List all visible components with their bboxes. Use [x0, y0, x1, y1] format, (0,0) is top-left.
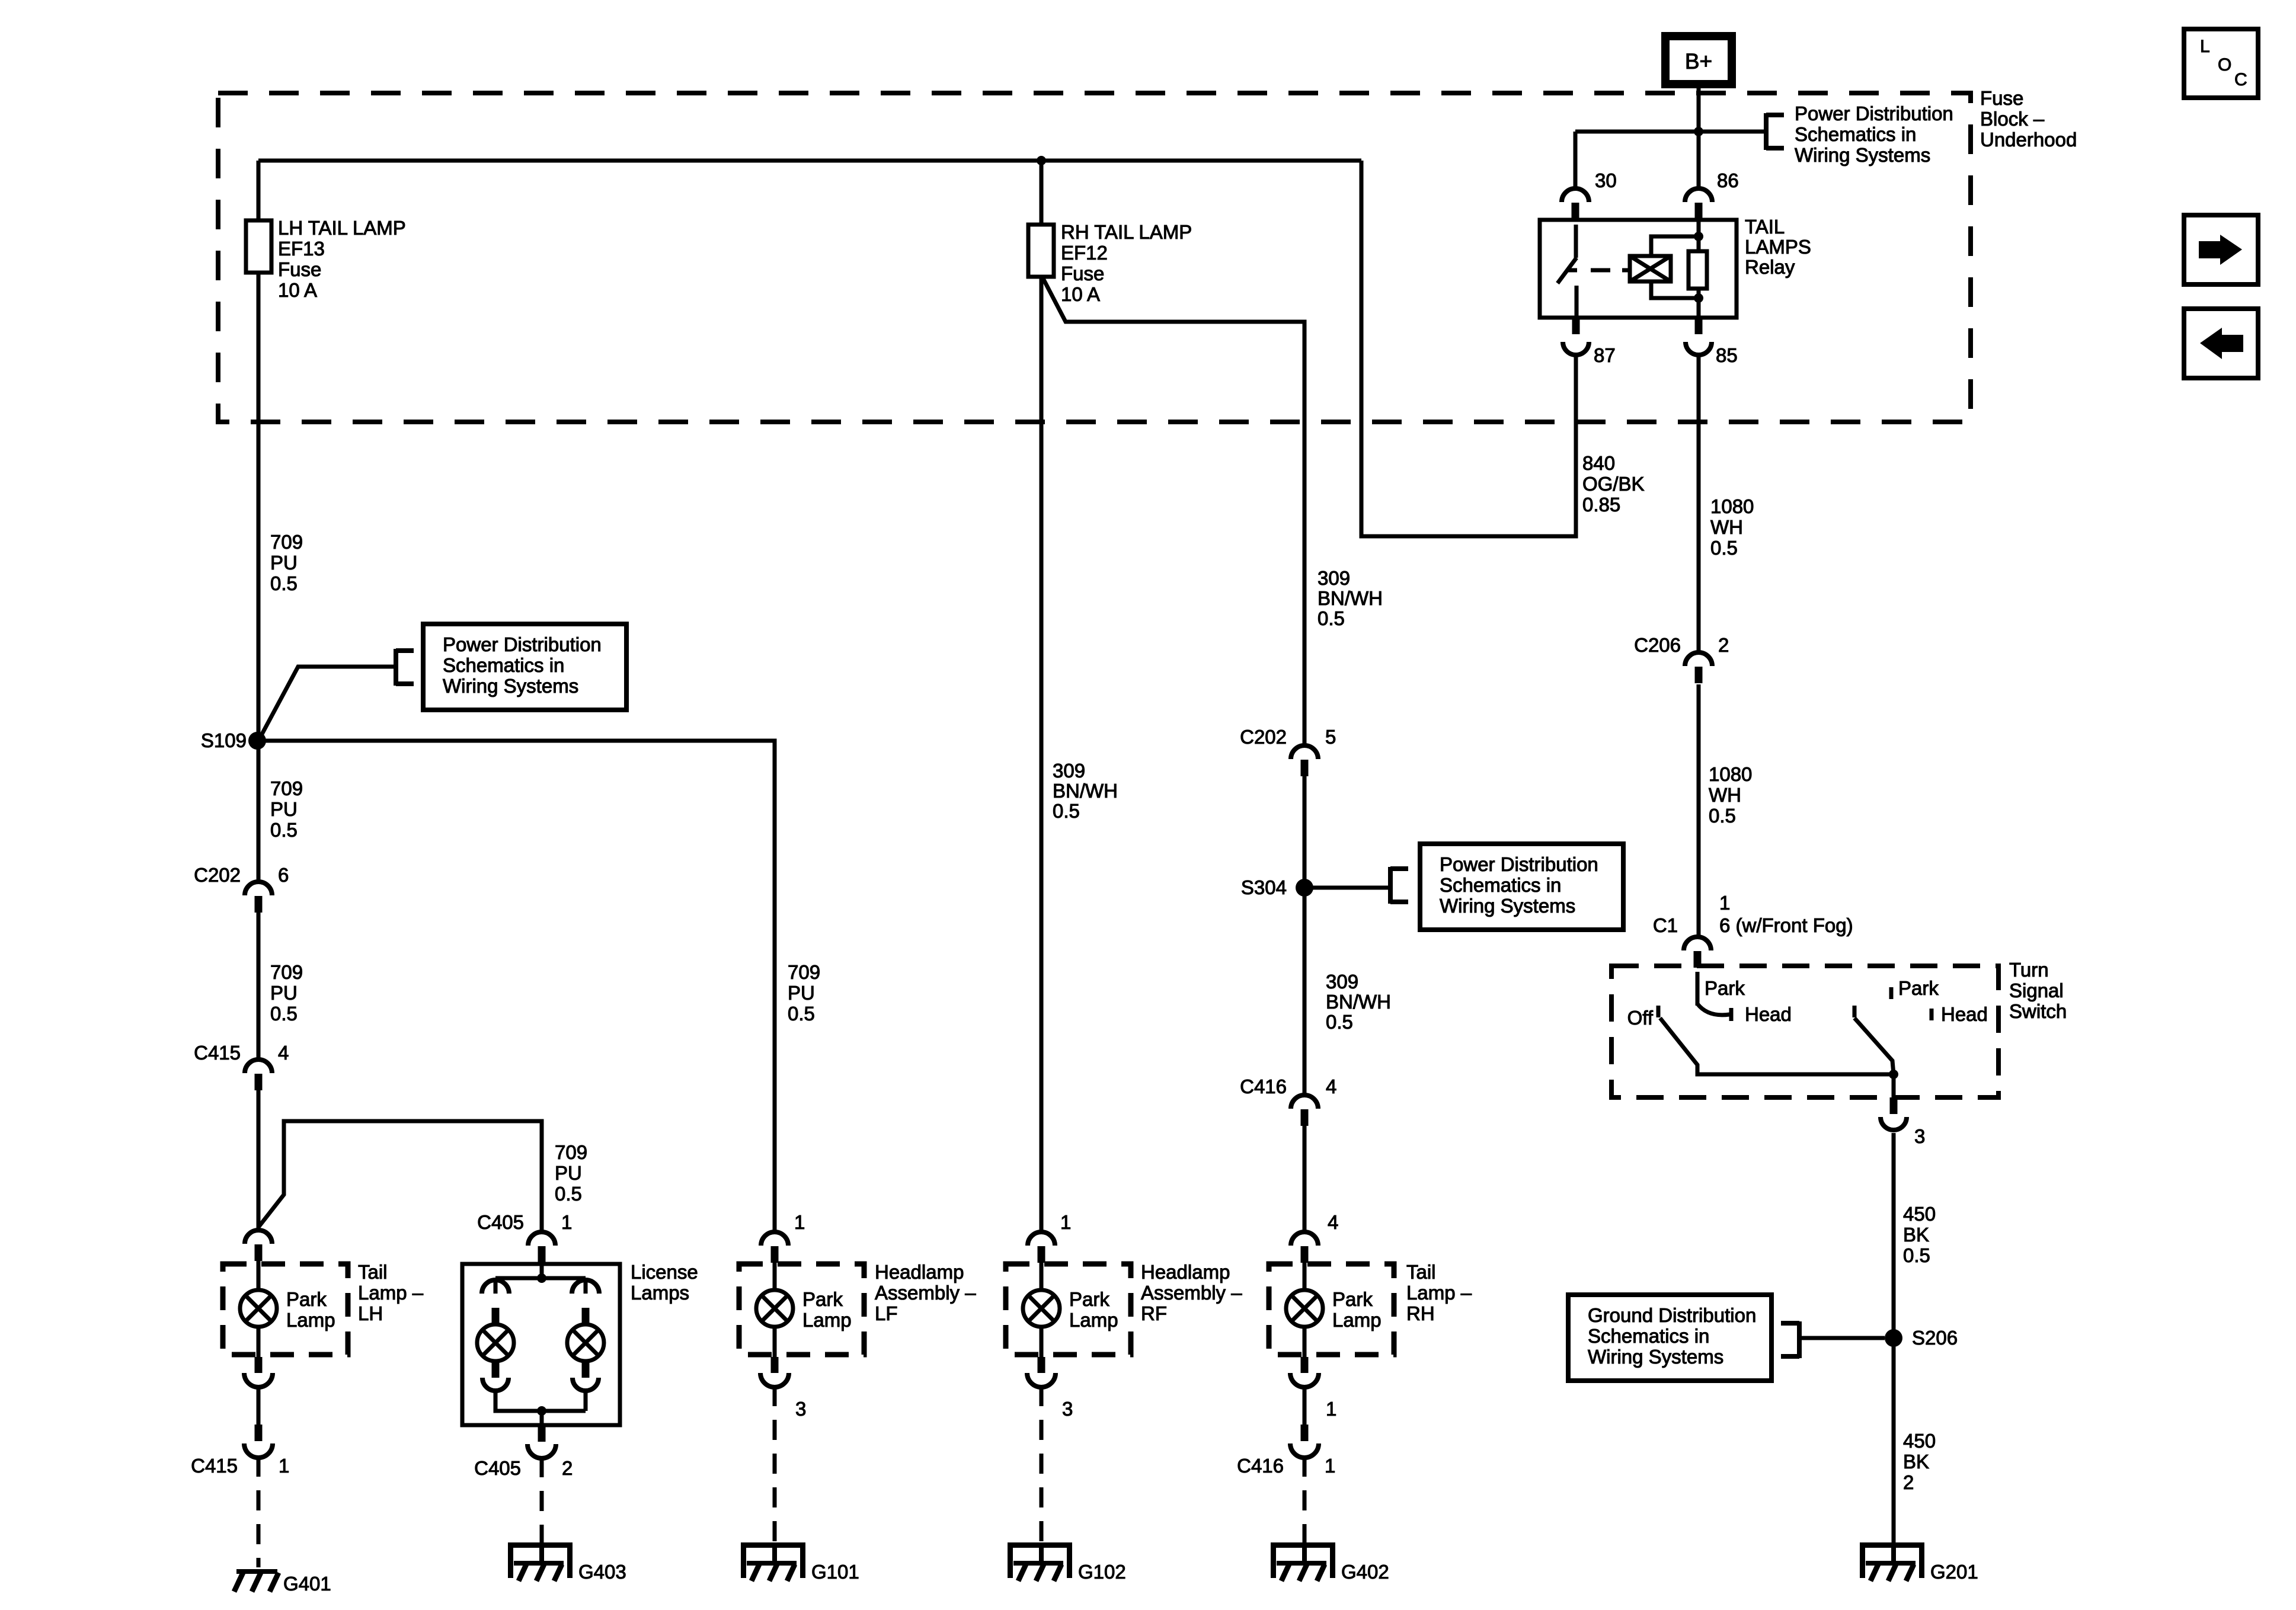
wire dashed C416-1 to G402	[1303, 1457, 1307, 1542]
svg-text:30: 30	[1595, 169, 1617, 191]
wire relay pin 86 internal	[1697, 220, 1701, 298]
svg-text:Off: Off	[1627, 1007, 1654, 1029]
svg-text:Lamp: Lamp	[1069, 1309, 1118, 1331]
svg-text:Power Distribution: Power Distribution	[1795, 103, 1953, 124]
svg-text:S109: S109	[201, 729, 247, 751]
svg-text:Lamp: Lamp	[802, 1309, 852, 1331]
svg-text:Wiring Systems: Wiring Systems	[1588, 1346, 1723, 1368]
svg-text:Lamp: Lamp	[286, 1309, 335, 1331]
svg-text:Head: Head	[1745, 1003, 1792, 1025]
tail lamp LH dashed outline	[223, 1264, 348, 1355]
svg-text:4: 4	[1326, 1076, 1336, 1097]
wire into RF park lamp bulb	[1040, 1261, 1044, 1290]
svg-text:Park: Park	[286, 1288, 327, 1310]
node license bottom junction	[537, 1406, 546, 1416]
svg-text:Wiring Systems: Wiring Systems	[1795, 144, 1930, 166]
wire license top split	[495, 1276, 586, 1281]
svg-text:WH: WH	[1709, 784, 1741, 806]
svg-text:RF: RF	[1141, 1302, 1167, 1324]
svg-text:Power Distribution: Power Distribution	[1440, 853, 1598, 875]
contact tick Off	[1657, 1006, 1661, 1017]
switch park-head selector curve	[1697, 1004, 1729, 1015]
contact tick Head (right)	[1930, 1009, 1934, 1020]
relay coil box	[1630, 256, 1671, 281]
wire 840 OG/BK relay 87 to fuses bus	[1361, 161, 1576, 536]
connector C1 pin 1	[1684, 937, 1711, 968]
svg-text:709: 709	[788, 961, 820, 983]
svg-text:EF13: EF13	[278, 238, 325, 260]
svg-text:Park: Park	[1069, 1288, 1109, 1310]
svg-text:85: 85	[1716, 344, 1738, 366]
svg-text:C1: C1	[1653, 914, 1678, 936]
node S304	[1296, 879, 1313, 897]
relay pin 87 connector	[1563, 318, 1589, 355]
connector C415 pin 4	[245, 1060, 272, 1090]
wire C405 into license box	[540, 1263, 544, 1278]
wire S109 to LF park lamp column	[258, 741, 775, 1232]
svg-text:WH: WH	[1710, 516, 1743, 538]
svg-text:Lamp: Lamp	[1332, 1309, 1382, 1331]
svg-text:Lamp –: Lamp –	[1406, 1282, 1472, 1304]
node junction on B+ wire	[1694, 127, 1703, 136]
svg-text:PU: PU	[270, 798, 298, 820]
node switch output junction	[1889, 1070, 1898, 1079]
switch blade right	[1854, 1018, 1894, 1074]
svg-text:0.5: 0.5	[1710, 537, 1738, 559]
svg-text:450: 450	[1903, 1203, 1936, 1225]
bracket to power distribution note (S304)	[1390, 867, 1408, 904]
svg-text:1080: 1080	[1709, 763, 1752, 785]
svg-text:Schematics in: Schematics in	[1588, 1325, 1709, 1347]
connector LH tail lamp lower pin	[244, 1357, 273, 1387]
wire branch to license lamps	[258, 1121, 542, 1232]
connector license left bulb lower	[482, 1361, 509, 1391]
relay pin 85 connector	[1686, 318, 1712, 355]
svg-text:1: 1	[1719, 892, 1730, 914]
svg-text:1: 1	[279, 1455, 289, 1477]
svg-text:709: 709	[270, 961, 303, 983]
svg-text:G201: G201	[1930, 1561, 1978, 1583]
svg-text:Fuse: Fuse	[278, 258, 321, 280]
wire C416-4 to RH tail lamp	[1303, 1126, 1307, 1232]
relay actuator dashed link	[1591, 268, 1630, 273]
wire 709 PU C202 to C415	[257, 913, 261, 1060]
svg-text:1: 1	[1325, 1455, 1335, 1477]
svg-text:87: 87	[1594, 344, 1616, 366]
svg-text:C202: C202	[194, 864, 241, 886]
svg-text:C405: C405	[474, 1457, 521, 1479]
wire license bottom	[540, 1411, 544, 1425]
svg-text:309: 309	[1326, 971, 1358, 993]
svg-text:O: O	[2218, 55, 2231, 75]
note box Power Distribution (S109)	[423, 624, 626, 710]
LOC reference box	[2184, 29, 2258, 98]
svg-text:PU: PU	[788, 982, 815, 1004]
wire relay internal to pin 85	[1697, 289, 1701, 318]
wire 1080 WH C206 to C1	[1697, 684, 1701, 937]
svg-text:1080: 1080	[1710, 495, 1754, 517]
svg-text:0.5: 0.5	[270, 1003, 298, 1025]
connector headlamp RF pin 1	[1028, 1232, 1055, 1263]
svg-text:0.5: 0.5	[1318, 607, 1345, 629]
svg-text:Turn: Turn	[2009, 959, 2049, 981]
svg-text:Park: Park	[1332, 1288, 1373, 1310]
svg-text:C415: C415	[194, 1042, 241, 1064]
relay TAIL LAMPS box	[1540, 220, 1737, 318]
svg-text:709: 709	[270, 777, 303, 799]
wire 1080 WH relay 85 to C206	[1697, 353, 1701, 652]
lamp Park Lamp RF bulb	[1023, 1290, 1060, 1327]
fuse EF12 RH TAIL LAMP	[1028, 225, 1054, 277]
headlamp assembly RF dashed outline	[1006, 1264, 1131, 1355]
wire into RH park lamp bulb	[1303, 1261, 1307, 1290]
wire dashed RF to G102	[1040, 1386, 1044, 1542]
wire RH lamp to C416 pin 1	[1303, 1386, 1307, 1425]
svg-text:S206: S206	[1912, 1327, 1958, 1349]
svg-text:4: 4	[278, 1042, 289, 1064]
wire S304 to power distribution note bracket	[1304, 886, 1390, 890]
svg-text:86: 86	[1717, 169, 1739, 191]
svg-text:0.5: 0.5	[1709, 805, 1736, 827]
svg-text:G102: G102	[1078, 1561, 1126, 1583]
svg-text:Schematics in: Schematics in	[443, 654, 564, 676]
lamp license right bulb	[567, 1324, 604, 1361]
svg-text:309: 309	[1053, 760, 1085, 782]
svg-text:C: C	[2234, 70, 2247, 89]
wire 450 BK pin 3 to S206	[1892, 1133, 1896, 1338]
relay switch upper stub	[1574, 225, 1578, 258]
wire license left leg lower	[495, 1391, 586, 1411]
svg-text:5: 5	[1325, 726, 1336, 748]
wire RF bulb to lower pin	[1040, 1327, 1044, 1357]
ground G402	[1271, 1542, 1335, 1581]
node coil top junction	[1694, 232, 1703, 241]
svg-text:B+: B+	[1685, 49, 1712, 73]
svg-text:PU: PU	[270, 552, 298, 574]
svg-text:BN/WH: BN/WH	[1318, 587, 1383, 609]
wire into LH park lamp bulb	[257, 1261, 261, 1290]
ground G102	[1008, 1542, 1072, 1581]
turn signal switch dashed outline	[1611, 966, 1998, 1097]
svg-text:Headlamp: Headlamp	[875, 1261, 964, 1283]
tail lamp RH dashed outline	[1269, 1264, 1394, 1355]
svg-text:0.5: 0.5	[270, 819, 298, 841]
svg-text:C415: C415	[191, 1455, 238, 1477]
svg-text:LH: LH	[358, 1302, 383, 1324]
connector headlamp LF pin 3	[760, 1357, 789, 1387]
svg-text:Switch: Switch	[2009, 1000, 2067, 1022]
svg-text:Headlamp: Headlamp	[1141, 1261, 1230, 1283]
node junction at RH fuse tap	[1037, 156, 1046, 165]
svg-text:1: 1	[561, 1211, 572, 1233]
svg-text:Assembly –: Assembly –	[875, 1282, 976, 1304]
svg-text:1: 1	[794, 1211, 805, 1233]
svg-text:Block –: Block –	[1980, 108, 2045, 130]
svg-text:C202: C202	[1240, 726, 1287, 748]
wire 309 BN/WH RH fuse to RF lamp	[1040, 277, 1044, 1232]
svg-text:6 (w/Front Fog): 6 (w/Front Fog)	[1719, 914, 1853, 936]
bracket to power distribution note	[1766, 113, 1784, 150]
wire license right leg lower	[584, 1391, 588, 1411]
relay pin 86 connector	[1685, 188, 1712, 219]
lamp license left bulb	[477, 1324, 514, 1361]
wire 709 PU LH fuse to S109	[257, 273, 261, 741]
wire C415 to LH park lamp	[257, 1090, 261, 1230]
wire into LF park lamp bulb	[773, 1261, 777, 1290]
connector C415 pin 1	[244, 1425, 273, 1458]
connector tail lamp RH lower pin	[1290, 1357, 1319, 1387]
svg-text:Tail: Tail	[358, 1261, 388, 1283]
svg-text:3: 3	[1914, 1125, 1925, 1147]
connector C202 pin 5	[1291, 745, 1318, 776]
svg-text:Fuse: Fuse	[1061, 263, 1104, 284]
svg-text:Park: Park	[1705, 977, 1745, 999]
svg-text:1: 1	[1326, 1398, 1336, 1420]
wire dashed LF to G101	[773, 1386, 777, 1542]
svg-text:RH: RH	[1406, 1302, 1435, 1324]
svg-text:OG/BK: OG/BK	[1582, 473, 1645, 495]
svg-text:LAMPS: LAMPS	[1745, 236, 1811, 258]
connector C206 pin 2	[1685, 652, 1712, 683]
svg-text:3: 3	[1062, 1398, 1073, 1420]
wire RH bulb to lower pin	[1303, 1327, 1307, 1357]
svg-text:Schematics in: Schematics in	[1795, 123, 1916, 145]
connector C202 pin 6	[245, 882, 272, 913]
svg-text:2: 2	[1903, 1471, 1914, 1493]
contact tick pivot right	[1853, 1006, 1857, 1017]
wire 309 BN/WH S304 to C416	[1303, 888, 1307, 1095]
relay switch contact tick	[1567, 268, 1577, 273]
svg-text:Schematics in: Schematics in	[1440, 874, 1561, 896]
bracket from ground distribution note	[1781, 1321, 1799, 1358]
node S109	[248, 732, 266, 750]
svg-text:6: 6	[278, 864, 289, 886]
bracket to power distribution note (S109)	[396, 649, 414, 686]
wire C202-5 to S304	[1303, 776, 1307, 888]
svg-text:Head: Head	[1941, 1003, 1988, 1025]
svg-text:BK: BK	[1903, 1224, 1929, 1246]
arrow box left	[2184, 309, 2258, 378]
wire license left leg upper	[494, 1278, 498, 1294]
wire LF bulb to lower pin	[773, 1327, 777, 1357]
connector C405 pin 2	[527, 1425, 556, 1458]
svg-text:2: 2	[1718, 634, 1729, 656]
lamp Park Lamp RH bulb	[1286, 1290, 1323, 1327]
svg-text:S304: S304	[1241, 876, 1287, 898]
svg-text:0.85: 0.85	[1582, 494, 1620, 516]
wire dashed C405-2 to G403	[540, 1457, 544, 1542]
ground G101	[741, 1542, 805, 1581]
wire 709 PU S109 to C202	[257, 741, 261, 882]
connector switch pin 3	[1881, 1097, 1907, 1130]
svg-text:PU: PU	[270, 982, 298, 1004]
headlamp assembly LF dashed outline	[739, 1264, 864, 1355]
wire B+ to relay pin 86	[1697, 85, 1701, 190]
wire junction to pin 30 riser and note bracket	[1575, 130, 1766, 134]
svg-text:G403: G403	[578, 1561, 626, 1583]
node S206	[1885, 1329, 1902, 1347]
svg-text:RH TAIL LAMP: RH TAIL LAMP	[1061, 221, 1192, 243]
svg-text:840: 840	[1582, 452, 1615, 474]
connector C416 pin 1	[1290, 1425, 1319, 1458]
svg-text:Park: Park	[802, 1288, 843, 1310]
svg-text:10 A: 10 A	[1061, 283, 1100, 305]
svg-text:TAIL: TAIL	[1745, 216, 1785, 238]
svg-text:C416: C416	[1237, 1455, 1284, 1477]
svg-text:BN/WH: BN/WH	[1053, 780, 1118, 802]
svg-text:Tail: Tail	[1406, 1261, 1436, 1283]
arrow box right	[2184, 215, 2258, 284]
svg-text:309: 309	[1318, 567, 1350, 589]
svg-text:C416: C416	[1240, 1076, 1287, 1097]
svg-text:0.5: 0.5	[1326, 1011, 1353, 1033]
fuse EF13 LH TAIL LAMP	[246, 220, 271, 273]
node license top junction	[537, 1273, 546, 1283]
svg-text:0.5: 0.5	[270, 572, 298, 594]
connector license left bulb upper	[482, 1280, 509, 1324]
svg-text:G402: G402	[1341, 1561, 1389, 1583]
svg-text:Lamps: Lamps	[631, 1282, 689, 1304]
note box Power Distribution (S304)	[1420, 844, 1623, 930]
svg-text:Park: Park	[1898, 977, 1939, 999]
wire LH fuse drop	[257, 161, 261, 220]
resistor relay suppression	[1689, 251, 1707, 289]
svg-text:709: 709	[555, 1141, 587, 1163]
svg-text:C206: C206	[1634, 634, 1681, 656]
ground G201	[1860, 1542, 1924, 1581]
svg-text:Relay: Relay	[1745, 256, 1795, 278]
svg-text:4: 4	[1328, 1211, 1338, 1233]
lamp Park Lamp LH bulb	[240, 1290, 277, 1327]
contact tick Park (right)	[1889, 987, 1894, 999]
wire riser to relay pin 30	[1574, 132, 1578, 190]
wire S109 to power distribution note bracket	[258, 667, 396, 741]
svg-text:BN/WH: BN/WH	[1326, 991, 1391, 1013]
svg-text:PU: PU	[555, 1162, 582, 1184]
wire note bracket to S206	[1799, 1336, 1885, 1340]
relay switch blade	[1558, 258, 1576, 283]
lamp Park Lamp LF bulb	[756, 1290, 793, 1327]
wire dashed C415-1 to G401	[257, 1457, 261, 1567]
wire 309 BN/WH branch from RH fuse	[1043, 279, 1304, 745]
svg-text:C405: C405	[477, 1211, 524, 1233]
svg-text:Fuse: Fuse	[1980, 87, 2023, 109]
svg-text:G401: G401	[283, 1573, 331, 1595]
connector C416 pin 4	[1291, 1095, 1318, 1126]
svg-text:Underhood: Underhood	[1980, 129, 2077, 151]
ground G403	[508, 1542, 573, 1581]
svg-text:LH TAIL LAMP: LH TAIL LAMP	[278, 217, 406, 239]
relay pin 30 connector	[1562, 188, 1589, 219]
svg-text:1: 1	[1060, 1211, 1071, 1233]
relay switch lower stub	[1575, 286, 1579, 318]
wire top bus from LH fuse to corner	[258, 159, 1361, 163]
wire license right leg upper	[584, 1278, 588, 1294]
note box Ground Distribution	[1568, 1295, 1771, 1381]
connector license right bulb upper	[572, 1280, 599, 1324]
wire coil bottom to pin 85 net	[1651, 281, 1699, 298]
svg-text:0.5: 0.5	[1903, 1244, 1930, 1266]
connector headlamp RF pin 3	[1027, 1357, 1056, 1387]
svg-text:Wiring Systems: Wiring Systems	[443, 675, 578, 697]
node coil bottom junction	[1694, 293, 1703, 303]
svg-text:0.5: 0.5	[788, 1003, 815, 1025]
connector C405 pin 1	[528, 1232, 555, 1263]
connector license right bulb lower	[573, 1361, 599, 1391]
contact tick Head (left)	[1729, 1008, 1734, 1021]
svg-text:LF: LF	[875, 1302, 898, 1324]
license lamps box	[462, 1264, 620, 1425]
svg-text:3: 3	[795, 1398, 806, 1420]
connector headlamp LF pin 1	[761, 1232, 788, 1263]
wire LH bulb to lower pin	[257, 1327, 261, 1357]
svg-text:Assembly –: Assembly –	[1141, 1282, 1242, 1304]
wire RH fuse drop	[1040, 161, 1044, 225]
svg-text:License: License	[631, 1261, 698, 1283]
connector LH tail lamp pin	[245, 1230, 272, 1261]
svg-text:709: 709	[270, 531, 303, 553]
svg-text:0.5: 0.5	[555, 1183, 582, 1205]
svg-text:Lamp –: Lamp –	[358, 1282, 424, 1304]
wire coil to pin 86 net	[1651, 236, 1699, 256]
svg-text:Wiring Systems: Wiring Systems	[1440, 895, 1575, 917]
wire LH lamp to C415 pin 1	[257, 1386, 261, 1425]
svg-text:2: 2	[562, 1457, 573, 1479]
svg-text:G101: G101	[811, 1561, 859, 1583]
svg-text:BK: BK	[1903, 1451, 1929, 1473]
wire 450 BK S206 to G201	[1892, 1338, 1896, 1548]
wire switch output to pin 3	[1892, 1074, 1896, 1097]
ground G401	[234, 1569, 279, 1592]
fuse block underhood dashed outline	[218, 93, 1971, 422]
svg-text:10 A: 10 A	[278, 279, 317, 301]
svg-text:0.5: 0.5	[1053, 800, 1080, 822]
svg-text:L: L	[2200, 37, 2210, 56]
svg-text:Ground Distribution: Ground Distribution	[1588, 1304, 1756, 1326]
power feed B+ box	[1665, 36, 1732, 84]
connector tail lamp RH pin 4	[1291, 1232, 1318, 1263]
svg-text:450: 450	[1903, 1430, 1936, 1452]
svg-text:EF12: EF12	[1061, 242, 1108, 264]
wire C1 into switch	[1696, 972, 1700, 1006]
switch blade left	[1660, 1018, 1894, 1074]
svg-text:Power Distribution: Power Distribution	[443, 633, 602, 655]
svg-text:Signal: Signal	[2009, 980, 2064, 1001]
